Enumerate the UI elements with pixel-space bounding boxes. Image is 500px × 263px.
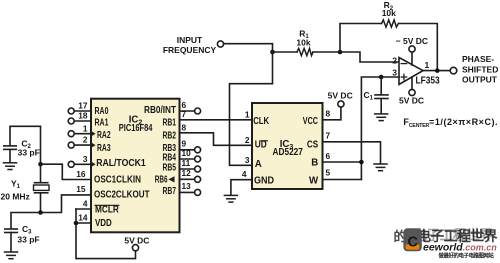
svg-text:18: 18	[78, 111, 88, 121]
resistor R2	[382, 20, 399, 27]
svg-text:10k: 10k	[296, 38, 310, 48]
capacitor C1	[380, 77, 382, 95]
svg-text:5V DC: 5V DC	[328, 91, 353, 101]
svg-text:做最好的电子电路图网站: 做最好的电子电路图网站	[438, 251, 495, 259]
node PHASE-SHIFTED OUTPUT terminal	[450, 67, 457, 74]
svg-text:14: 14	[78, 213, 88, 223]
svg-text:6: 6	[326, 151, 331, 161]
wire VCC to 5V terminal	[323, 107, 341, 120]
svg-text:CLK: CLK	[253, 116, 269, 127]
wire R1 to feedback junction	[313, 51, 340, 53]
svg-text:PHASE-: PHASE-	[462, 54, 494, 64]
junction output node	[435, 68, 440, 73]
svg-text:3: 3	[83, 154, 88, 164]
junction R1 right node	[338, 50, 343, 55]
svg-text:VCC: VCC	[303, 116, 318, 127]
svg-text:eeworld.com.cn: eeworld.com.cn	[423, 242, 497, 254]
svg-text:RB7: RB7	[163, 186, 177, 197]
power -5V DC terminal	[409, 46, 415, 52]
svg-text:8: 8	[182, 122, 187, 132]
svg-text:PIC16F84: PIC16F84	[119, 123, 153, 134]
svg-text:7: 7	[326, 131, 331, 141]
svg-text:C1: C1	[364, 90, 374, 102]
wire MCLR to 5V	[76, 208, 91, 210]
power +5V DC terminal op-amp	[409, 89, 415, 95]
svg-text:8: 8	[326, 109, 331, 119]
svg-text:1: 1	[83, 123, 88, 133]
svg-text:W: W	[309, 175, 319, 186]
svg-text:1: 1	[425, 60, 430, 70]
svg-text:2: 2	[83, 135, 88, 145]
svg-text:4: 4	[242, 169, 247, 179]
wire junction to R1	[273, 51, 298, 53]
junction input node	[270, 50, 275, 55]
IC3 AD5227 body	[252, 103, 323, 189]
wire CS to ground	[323, 142, 381, 164]
svg-text:17: 17	[78, 101, 88, 111]
wire W to vertical net	[323, 179, 362, 181]
svg-text:VDD: VDD	[95, 218, 112, 229]
junction VDD/MCLR node	[74, 221, 79, 226]
svg-text:3: 3	[392, 67, 397, 77]
svg-text:RA2: RA2	[97, 130, 111, 141]
wire feedback up and across to R2	[340, 24, 382, 53]
wire GND to ground	[231, 180, 252, 195]
crystal Y1 20 MHz	[40, 164, 42, 182]
svg-text:16: 16	[76, 169, 86, 179]
wire R2 to output node	[398, 24, 437, 71]
svg-text:20 MHz: 20 MHz	[1, 191, 30, 201]
wire RB2 to UD	[180, 133, 253, 146]
resistor R1	[297, 48, 313, 55]
svg-text:RB2: RB2	[163, 130, 177, 141]
junction B node	[359, 160, 364, 165]
IC2 PIC16F84 body	[91, 99, 180, 233]
pin 3 RA4/TOCK1	[68, 161, 74, 167]
capacitor C3	[11, 213, 41, 229]
svg-text:2: 2	[392, 55, 397, 65]
svg-text:11: 11	[182, 158, 191, 168]
svg-text:15: 15	[76, 184, 86, 194]
svg-text:3: 3	[245, 155, 250, 165]
svg-text:RB6: RB6	[155, 175, 168, 186]
pin 17 RA0	[68, 108, 74, 114]
svg-text:FCENTER=1/(2×π×R×C).: FCENTER=1/(2×π×R×C).	[403, 117, 498, 129]
ground under CS	[374, 164, 387, 171]
pin 18 RA1	[68, 118, 74, 124]
svg-text:13: 13	[182, 181, 192, 191]
svg-text:RAL/TOCK1: RAL/TOCK1	[96, 158, 146, 169]
pin 1 RA2	[68, 131, 74, 137]
svg-text:1: 1	[245, 109, 250, 119]
wire op-amp output	[423, 70, 451, 72]
svg-text:SHIFTED: SHIFTED	[462, 65, 498, 75]
svg-text:RB1: RB1	[163, 118, 177, 129]
wire down to 5V DC terminal	[76, 209, 136, 259]
power 5V DC terminal AD5227	[338, 101, 344, 107]
ground under C3	[5, 252, 18, 259]
wire B to W net	[323, 161, 362, 163]
wire input node to AD5227 pin A	[230, 52, 273, 165]
svg-text:7: 7	[182, 109, 187, 119]
op-amp U1 LF353	[399, 58, 423, 85]
svg-text:OSC1CLKIN: OSC1CLKIN	[94, 175, 141, 186]
svg-text:RB0/INT: RB0/INT	[144, 105, 176, 116]
svg-text:A: A	[255, 159, 262, 170]
junction crystal top node	[38, 162, 43, 167]
power 5V DC terminal PIC	[132, 245, 138, 251]
svg-text:RA3: RA3	[97, 143, 111, 154]
node INPUT FREQUENCY terminal	[217, 41, 223, 47]
svg-text:RA0: RA0	[95, 106, 109, 117]
ground under C1	[375, 114, 388, 121]
svg-text:B: B	[311, 158, 318, 169]
watermark logo	[403, 228, 421, 251]
svg-text:2: 2	[245, 135, 250, 145]
svg-text:5V DC: 5V DC	[124, 235, 149, 245]
svg-text:33 pF: 33 pF	[18, 148, 40, 158]
wire junction to op-amp inverting input	[340, 52, 399, 62]
ground under AD5227 GND	[224, 195, 237, 202]
svg-text:9: 9	[182, 138, 187, 148]
svg-text:RA1: RA1	[95, 117, 109, 128]
wire RB1 to CLK	[180, 119, 253, 121]
svg-text:INPUT: INPUT	[177, 35, 203, 45]
svg-text:CS: CS	[307, 140, 319, 151]
svg-text:10: 10	[182, 148, 192, 158]
svg-text:AD5227: AD5227	[273, 147, 303, 158]
junction crystal bottom node	[38, 210, 43, 215]
wire input terminal to junction	[224, 44, 273, 52]
svg-text:MCLR: MCLR	[95, 205, 119, 216]
svg-text:OSC2CLKOUT: OSC2CLKOUT	[94, 190, 150, 201]
svg-text:10k: 10k	[382, 8, 396, 18]
svg-text:33 pF: 33 pF	[17, 235, 39, 245]
wire OSC1 to crystal top node	[41, 164, 92, 179]
svg-text:LF353: LF353	[416, 75, 441, 86]
svg-text:4: 4	[83, 199, 88, 209]
wire op-amp noninverting input	[361, 77, 399, 180]
capacitor C2	[10, 126, 41, 164]
svg-text:− 5V DC: − 5V DC	[396, 36, 428, 46]
svg-text:OUTPUT: OUTPUT	[462, 75, 498, 85]
svg-text:Y1: Y1	[11, 178, 21, 190]
svg-text:5V DC: 5V DC	[399, 96, 424, 106]
svg-text:FREQUENCY: FREQUENCY	[163, 45, 217, 55]
svg-text:5: 5	[326, 168, 331, 178]
svg-text:12: 12	[182, 168, 192, 178]
svg-text:C: C	[408, 235, 419, 251]
svg-text:RB5: RB5	[163, 163, 177, 174]
pin 2 RA3	[68, 142, 74, 148]
junction noninverting node / C1 tap	[379, 75, 384, 80]
svg-text:GND: GND	[254, 175, 274, 186]
ground under C2	[4, 163, 17, 170]
wire OSC2 to crystal bottom node	[41, 195, 92, 213]
